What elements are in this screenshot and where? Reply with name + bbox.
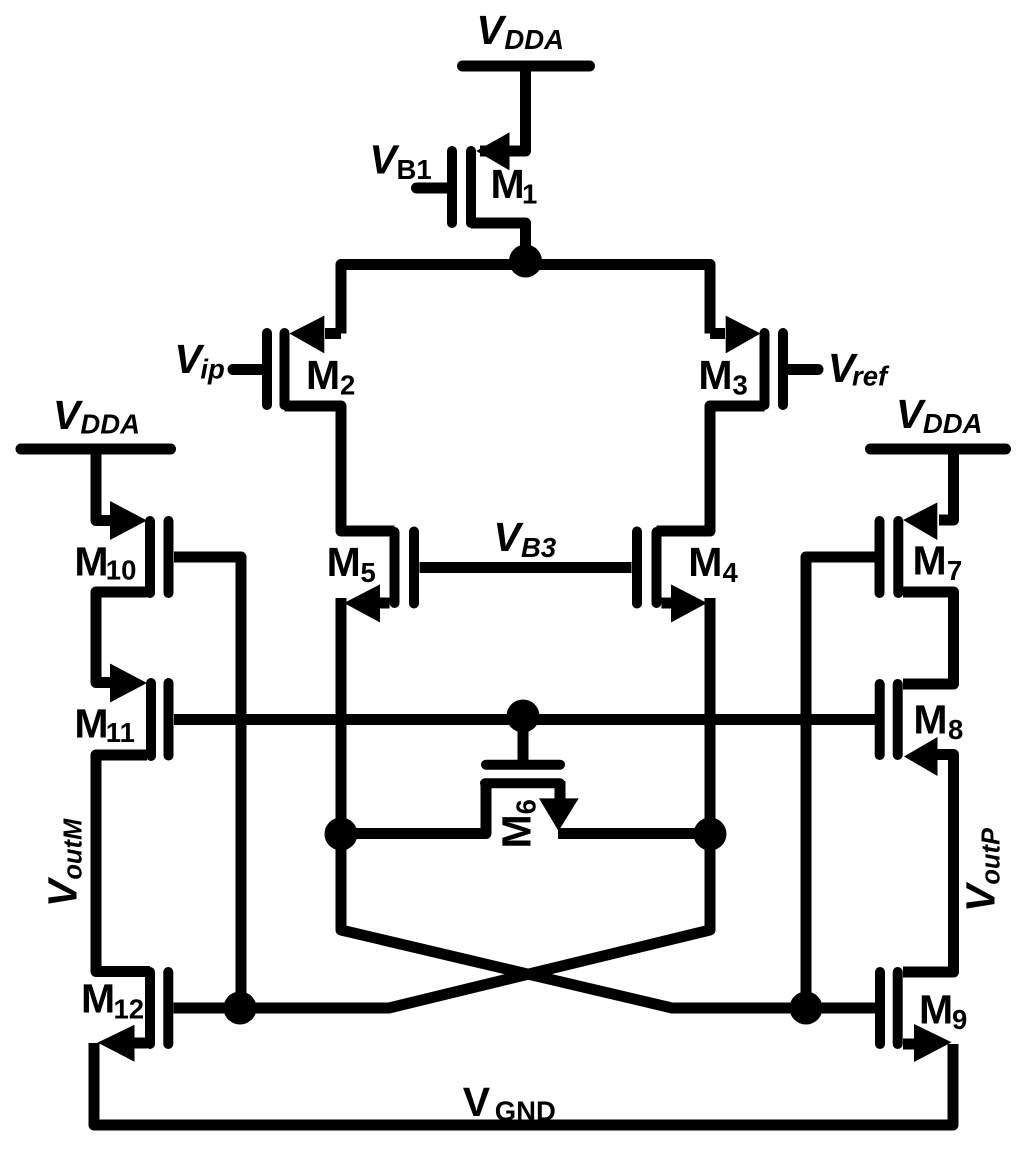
svg-text:M: M: [306, 352, 340, 398]
svg-text:11: 11: [106, 717, 135, 748]
svg-text:M: M: [491, 161, 525, 207]
svg-text:M: M: [919, 987, 953, 1033]
svg-text:M: M: [913, 538, 947, 584]
svg-text:DDA: DDA: [923, 408, 983, 439]
svg-text:M: M: [688, 539, 722, 585]
svg-text:M: M: [81, 976, 115, 1022]
svg-text:M: M: [74, 701, 108, 747]
svg-text:V: V: [463, 1079, 491, 1125]
svg-text:3: 3: [733, 370, 748, 401]
svg-text:B3: B3: [521, 532, 556, 563]
svg-text:12: 12: [114, 994, 145, 1025]
svg-text:V: V: [493, 514, 524, 560]
svg-text:M: M: [74, 539, 108, 585]
svg-text:8: 8: [948, 714, 963, 745]
svg-text:V: V: [476, 7, 507, 53]
svg-text:GND: GND: [495, 1096, 556, 1127]
svg-text:M: M: [698, 352, 732, 398]
svg-text:4: 4: [723, 557, 739, 588]
svg-text:ref: ref: [852, 361, 890, 392]
svg-text:DDA: DDA: [504, 24, 564, 55]
svg-text:1: 1: [522, 179, 537, 210]
svg-text:7: 7: [947, 555, 962, 586]
svg-text:V: V: [53, 392, 84, 438]
svg-text:DDA: DDA: [80, 409, 140, 440]
svg-text:B1: B1: [397, 154, 432, 185]
svg-text:2: 2: [340, 370, 355, 401]
svg-text:10: 10: [106, 555, 137, 586]
svg-text:9: 9: [952, 1004, 967, 1035]
svg-text:M: M: [913, 697, 947, 743]
svg-text:ip: ip: [200, 354, 224, 385]
svg-text:5: 5: [361, 557, 376, 588]
svg-text:M: M: [327, 539, 361, 585]
